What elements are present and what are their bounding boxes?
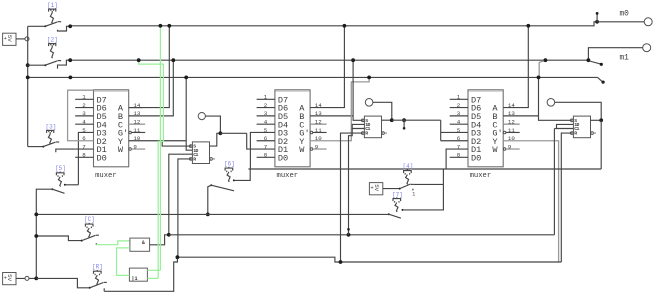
AND gate G1 body [130, 238, 150, 251]
svg-text:[2]: [2] [47, 37, 58, 44]
U3 pin 11 inversion bubble [503, 131, 506, 134]
switch 1 blade [44, 25, 46, 27]
svg-text:5V: 5V [6, 35, 13, 42]
svg-text:1: 1 [412, 192, 415, 198]
switch 3 upper throw stub [56, 141, 59, 143]
wire C net horizontal [169, 234, 555, 236]
mini switch stub below node B [403, 120, 405, 127]
wire latch U4 1D input from rail C [186, 77, 192, 150]
switch 1 output throw [58, 26, 71, 31]
wire switch 1 lead-in [28, 25, 46, 27]
svg-text:[6]: [6] [224, 161, 235, 168]
switch 1 upper throw stub [58, 21, 61, 23]
svg-text:[7]: [7] [392, 192, 403, 199]
switch C upper throw stub [96, 234, 99, 236]
U3 pin 10 Y gray wire down right [503, 141, 558, 262]
U2 pin 11 inversion bubble [310, 131, 313, 134]
wire switch C output green [96, 241, 130, 245]
U3 pin 9 inversion bubble [503, 148, 506, 151]
wire latch U5 net down to muxer U3 D3 D2 [440, 120, 442, 141]
battery B1 +5V top left [3, 33, 16, 45]
switch R spring [96, 275, 99, 285]
svg-text:D0: D0 [278, 153, 288, 163]
wire +5V rail A (from switch 1 to m0 node) [70, 22, 597, 26]
svg-text:[4]: [4] [403, 163, 414, 170]
U2 pin 9 inversion bubble [310, 148, 313, 151]
U2 pin 10 Y gray wire to rail C [310, 77, 369, 140]
svg-text:|1: |1 [131, 276, 137, 282]
wire battery B1 vertical feed column [27, 26, 29, 146]
output m1 circle [643, 44, 651, 52]
junction C net / gate G1 [167, 233, 171, 237]
svg-text:[R]: [R] [92, 264, 103, 271]
junction rail A / green bus [159, 24, 163, 28]
svg-text:m0: m0 [620, 11, 630, 19]
D-latch U5 inverted output bubble and stub [382, 132, 385, 135]
wire latch U6 1D and C1 tie to C net [557, 124, 574, 128]
junction battery column / switch 2 lead [26, 63, 30, 67]
multiplexer U3 body [468, 90, 503, 167]
wire latch U5 S input from rail B [353, 60, 363, 120]
junction latch U4 output node [219, 131, 223, 135]
U3 pin 13 wire from rail B column [503, 115, 538, 117]
junction bottom rail / switch 6 [206, 213, 210, 217]
switch 5 throw contact [64, 184, 66, 186]
wire switch 2 lead-in [28, 64, 46, 66]
switch 3 lower throw to muxer U1 pin 7 [56, 149, 75, 152]
D-latch U6 R input bubble [571, 132, 574, 135]
wire battery B2 to switch R [36, 278, 89, 287]
switch 4 throw contact [411, 183, 414, 185]
junction latch U6 output node [599, 118, 603, 122]
switch 3 blade [42, 146, 44, 148]
wire latch U6 R input from R net [561, 133, 572, 262]
svg-text:W: W [492, 145, 498, 155]
switch 5 spring [58, 177, 61, 187]
U2 pin 7 wire from latch D1 output line [247, 133, 275, 149]
wire switch 3 lead-in from battery column [28, 146, 44, 148]
D-latch U5 S input bubble [362, 119, 365, 122]
multiplexer U2 body [275, 90, 310, 167]
wire battery B1 output [16, 38, 28, 40]
wire gate G2 output top green [147, 269, 160, 271]
svg-text:5V: 5V [6, 274, 13, 281]
switch 1 actuator [48, 8, 56, 10]
svg-text:[3]: [3] [46, 123, 57, 130]
wire +5V rail B (from switch 2 to m1 node) [70, 59, 588, 61]
D-latch U5 body [364, 116, 381, 138]
D-latch U6 S input bubble [571, 119, 574, 122]
switch C lower throw to gate [95, 243, 97, 245]
wire green branch from rail B [139, 60, 164, 278]
battery B3 +5V middle [369, 183, 382, 195]
svg-text:D0: D0 [471, 153, 481, 163]
switch 6 actuator [225, 168, 233, 171]
switch 2 output throw [58, 60, 71, 68]
U3 pin 14 wire to rail A [503, 26, 528, 108]
wire switch 5 common from battery column [36, 189, 52, 278]
multiplexer U1 body [94, 90, 129, 167]
wire latch U5 R input from R net [341, 133, 363, 262]
node battery B1 terminal [25, 37, 29, 41]
U2 pin 14 wire to rail A [310, 26, 344, 108]
junction R net / latch U5 R column [339, 260, 343, 264]
clock gate G2 body [129, 268, 147, 281]
U2 pin 13 wire to latch D2 column [310, 115, 353, 117]
D-latch U4 inverted output bubble and stub [210, 158, 213, 161]
D-latch U5 R input bubble [362, 132, 365, 135]
wire switch 6 common from bottom rail [208, 185, 211, 214]
junction latch U5 output node B [402, 118, 406, 122]
wire bottom common rail [36, 213, 389, 215]
switch 7 throw contact [402, 209, 404, 211]
junction battery column / rail C [26, 76, 30, 80]
junction C net / latch U5 column [347, 233, 351, 237]
switch 6 throw contact [233, 179, 235, 181]
D-latch U4 body [192, 142, 209, 164]
svg-text:muxer: muxer [277, 172, 299, 180]
switch 2 upper throw stub [58, 60, 61, 62]
switch 2 blade [44, 64, 46, 66]
mini switch at rail C right end [598, 78, 603, 82]
wire battery B3 output to switch 4 [383, 188, 400, 190]
wire switch 5 output to muxer U1 D3 [66, 184, 79, 186]
wire switch 6 output to select rail [235, 169, 250, 180]
U1 pin 7 wire from switch 3 [75, 148, 93, 150]
switch 6 blade open [210, 184, 212, 186]
U2 pin 5 wire from switch 6 column [250, 132, 275, 169]
svg-text:[C]: [C] [84, 216, 95, 223]
svg-text:muxer: muxer [470, 172, 492, 180]
wire select net horizontal rail [248, 168, 601, 170]
junction switch C rail / battery column [34, 234, 38, 238]
U1 pin 14 wire to rail A [129, 26, 170, 108]
wire latch U4 C1 input from C net [169, 154, 193, 235]
switch R blade [89, 287, 91, 289]
svg-text:W: W [118, 145, 124, 155]
mini switch blade at rail B end [590, 61, 601, 64]
wire switch 4 output [414, 183, 444, 185]
switch 4 blade closed [399, 188, 401, 190]
wire switch 7 output to select rail [404, 169, 444, 210]
wire latch U4 output to probe node [210, 133, 221, 146]
U1 pin 11 inversion bubble [129, 131, 132, 134]
junction switch 2 output node [68, 58, 72, 62]
U1 pin 9 inversion bubble [129, 148, 132, 151]
wire m0 node [595, 20, 599, 24]
wire switch R output to R net [104, 257, 177, 291]
wire latch U4 R input from R net [178, 159, 191, 257]
switch 1 spring [50, 13, 53, 24]
U3 pin 7 wire to select rail [446, 149, 468, 169]
output m0 circle [644, 18, 652, 26]
switch 5 actuator [56, 173, 64, 176]
U1 pin 14 wire stub [129, 107, 143, 109]
switch 7 blade open [388, 213, 390, 215]
switch 7 spring [395, 203, 398, 212]
svg-text:[5]: [5] [55, 165, 66, 172]
wire probe P1 to node [205, 116, 220, 133]
probe P2 circle [365, 99, 373, 107]
battery B2 +5V bottom left [3, 273, 16, 285]
switch 6 spring [227, 172, 230, 182]
wire gate G1 output to C net [150, 235, 169, 245]
svg-text:D0: D0 [97, 153, 107, 163]
U1 pin 5 wire to switch 5 [78, 132, 93, 184]
switch 3 spring [48, 134, 51, 144]
wire latch U6 S input from rail B column [539, 60, 545, 77]
U1 pin 13 wire to rail B [129, 60, 174, 116]
U1 pin 6 gray loop wire [68, 90, 94, 141]
junction battery B2 / column [34, 277, 38, 281]
junction bottom rail / battery column [34, 213, 38, 217]
switch C spring [87, 228, 90, 238]
svg-text:W: W [299, 145, 305, 155]
svg-text:m1: m1 [620, 55, 630, 63]
switch 4 spring [406, 175, 409, 185]
switch 4 open throw stub [412, 189, 414, 191]
wire latch U4 node to muxer U2 D1 [220, 132, 246, 134]
switch 2 actuator [48, 43, 56, 45]
switch R upper throw stub [104, 281, 107, 283]
junction R net start [176, 255, 180, 259]
wire latch U5 1D and C1 tie to C net [352, 124, 364, 128]
wire latch U5 output node and line [382, 119, 392, 121]
wire battery B2 output [16, 277, 36, 279]
probe P1 circle [198, 113, 205, 120]
junction rail B / green branch [137, 58, 141, 62]
wire latch U6 output to probe node [591, 119, 602, 121]
D-latch U6 inverted output bubble and stub [591, 132, 594, 135]
U1 pin 10 Y output wire [129, 140, 187, 142]
D-latch U6 body [573, 116, 590, 138]
wire m0 to output circle [597, 21, 644, 23]
wire R net horizontal [177, 257, 561, 262]
wire probe P3 to node [555, 102, 602, 120]
junction switch 1 output node [68, 24, 72, 28]
wire gate G1 input 2 / gate G2 input tie green [117, 248, 130, 276]
svg-text:[1]: [1] [47, 2, 58, 9]
node battery B2 terminal [25, 276, 29, 280]
wire latch U6 output down to select rail [600, 120, 602, 169]
junction rail C node [69, 76, 73, 80]
wire latch U4 S input from Y line [162, 141, 191, 146]
switch C actuator [85, 224, 93, 227]
D-latch U4 R input bubble [190, 158, 193, 161]
wire m1 from rail B [588, 48, 642, 61]
switch 2 spring [50, 47, 53, 58]
D-latch U4 S input bubble [190, 145, 193, 148]
wire +5V rail C (third rail from battery column) [28, 76, 598, 78]
switch 7 actuator [393, 199, 401, 202]
probe P3 circle [547, 99, 555, 107]
switch R lower throw [103, 288, 105, 291]
switch R actuator [94, 271, 102, 274]
switch 5 blade open [51, 188, 53, 190]
mini switch above m0 node [596, 15, 598, 22]
mini switch stub above C net junction [348, 230, 350, 235]
svg-text:5V: 5V [373, 184, 380, 191]
junction latch U5 output node A [390, 118, 394, 122]
wire gate G2 output bottom green [147, 277, 158, 279]
wire switch C feed rail [36, 236, 81, 241]
switch 4 actuator [404, 171, 412, 174]
wire green clock bus vertical [159, 26, 161, 270]
switch 3 actuator [46, 129, 54, 131]
wire probe P2 to node [373, 102, 392, 120]
switch C blade [81, 240, 83, 242]
U3 pins 5 and 6 wires from latch D2 column [441, 131, 468, 133]
svg-text:muxer: muxer [95, 172, 117, 180]
